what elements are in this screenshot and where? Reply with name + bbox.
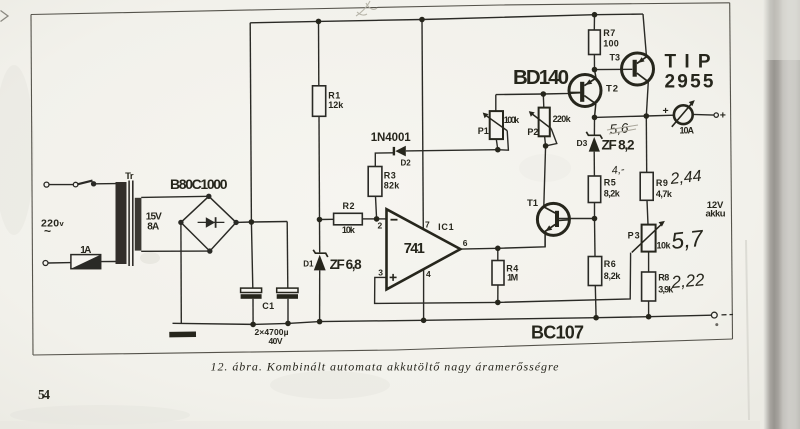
svg-text:7: 7 <box>425 220 430 230</box>
minus dashes <box>722 314 734 316</box>
svg-text:8,2k: 8,2k <box>604 271 622 281</box>
wire D3 top stem <box>593 117 595 134</box>
svg-text:5,6: 5,6 <box>609 120 629 137</box>
label R2 10k <box>342 201 356 235</box>
wire P1 wiper bend <box>498 131 509 151</box>
label R9 4,7k <box>656 178 673 199</box>
svg-text:8A: 8A <box>147 222 159 233</box>
node R7 rail <box>592 12 598 18</box>
wire output rail <box>595 115 674 117</box>
page edge shadow band right <box>763 0 800 429</box>
label R6 8,2k <box>604 259 622 281</box>
svg-text:12k: 12k <box>328 100 344 110</box>
svg-text:+: + <box>663 105 669 117</box>
svg-text:T2: T2 <box>606 84 618 95</box>
node R6 ground <box>593 315 599 321</box>
svg-text:1A: 1A <box>80 245 91 256</box>
resistor R6 <box>588 257 601 286</box>
wire switch to transformer <box>96 183 116 185</box>
potentiometer P2 <box>529 108 551 137</box>
node bridge bottom <box>207 248 212 253</box>
wire input live top <box>49 184 73 186</box>
wire R4 bottom stem <box>497 285 499 302</box>
terminal input top <box>44 182 49 187</box>
transistor T3 TIP2955 <box>622 53 654 85</box>
node bridge right <box>233 220 238 225</box>
wire riser to cap1 <box>251 222 252 288</box>
capacitor C1 b <box>277 288 298 323</box>
svg-text:6: 6 <box>463 238 468 248</box>
wire pin7 riser <box>422 20 423 230</box>
opamp plus sign <box>390 274 397 281</box>
node R1 R2 D1 <box>317 217 323 223</box>
svg-text:D3: D3 <box>577 138 588 148</box>
wire R3 riser to D2 <box>375 153 393 167</box>
bridge rectifier B80C1000 diamond <box>181 196 236 251</box>
svg-text:2,22: 2,22 <box>670 270 706 292</box>
wire T3 collector riser <box>646 82 648 116</box>
resistor R2 <box>334 213 363 225</box>
resistor R3 <box>368 167 382 197</box>
wire bridge minus down <box>180 222 182 323</box>
wire R7 top stem <box>593 15 595 30</box>
label R8 3,9k <box>658 273 674 295</box>
label TIP 2955 <box>665 52 714 93</box>
svg-text:82k: 82k <box>384 180 400 190</box>
potentiometer P1 <box>483 111 508 139</box>
wire bridge plus to cap2 corner <box>236 221 287 224</box>
wire D1 bottom stem <box>319 270 321 321</box>
svg-text:ZF 8,2: ZF 8,2 <box>602 137 635 152</box>
label 15V 8A <box>146 212 162 233</box>
node T2 collector rail <box>592 115 598 121</box>
svg-text:R2: R2 <box>343 201 355 211</box>
svg-text:3: 3 <box>378 267 383 277</box>
node P2 bottom T1 collector <box>543 143 549 149</box>
svg-text:C1: C1 <box>262 301 274 311</box>
svg-text:54: 54 <box>38 387 50 402</box>
svg-text:220k: 220k <box>553 114 572 124</box>
node T3 collector rail <box>644 113 650 119</box>
wire R4 top stem <box>497 248 499 260</box>
ink speck <box>715 323 718 326</box>
wire pin4 riser <box>423 270 425 321</box>
opamp minus sign <box>391 219 398 221</box>
wire R3 bottom to pin2 <box>376 196 377 219</box>
svg-text:D2: D2 <box>401 159 412 168</box>
wire riser cap2 <box>286 222 289 288</box>
diode D2 1N4001 <box>394 146 406 157</box>
potentiometer P3 <box>632 221 665 253</box>
wire left riser bridge plus to top rail <box>250 23 251 222</box>
wire P2 bottom stem <box>545 136 546 146</box>
wire P1 top stem <box>495 95 497 112</box>
svg-text:2955: 2955 <box>665 72 714 93</box>
ammeter M1 10A <box>672 100 695 127</box>
wire top rail <box>250 14 643 23</box>
wire R2 to pin2 node <box>362 218 376 220</box>
transistor T1 BC107 <box>537 203 569 235</box>
resistor R5 <box>588 176 600 203</box>
ground symbol <box>169 323 196 334</box>
node bridge left <box>178 220 183 225</box>
label R7 100 <box>603 28 619 49</box>
wire secondary top to bridge <box>141 196 209 197</box>
svg-text:1M: 1M <box>507 273 518 283</box>
wire R5 bottom to T1 node <box>594 203 596 219</box>
resistor R4 <box>492 261 504 286</box>
svg-text:+: + <box>720 110 726 122</box>
wire secondary bottom to bridge <box>141 250 210 252</box>
label 220v <box>41 217 65 238</box>
node bridge top <box>206 194 211 199</box>
label R5 8,2k <box>604 178 621 199</box>
zener diode D3 <box>586 132 602 152</box>
svg-text:D1: D1 <box>303 259 314 268</box>
wire pin2 stub <box>377 218 387 220</box>
svg-text:R7: R7 <box>603 28 615 38</box>
wire R9 bottom to P3 <box>647 200 648 224</box>
node R7 T3 base <box>592 67 598 73</box>
transformer secondary winding <box>135 198 142 251</box>
wire top rail corner down to T3 emitter <box>643 14 647 57</box>
svg-text:~: ~ <box>44 224 51 238</box>
label R1 12k <box>328 91 344 110</box>
resistor R8 <box>642 272 656 301</box>
T2 emitter arrow <box>585 79 592 85</box>
node R8 ground <box>646 314 652 320</box>
wire R7 bottom to T3 base node <box>593 55 595 70</box>
svg-text:T3: T3 <box>610 52 621 62</box>
svg-text:4: 4 <box>426 269 431 279</box>
svg-text:R6: R6 <box>604 259 616 269</box>
svg-text:10k: 10k <box>342 225 356 235</box>
node P2 top <box>541 91 547 97</box>
figure frame border <box>31 3 733 355</box>
zener diode D1 <box>313 250 328 271</box>
svg-text:4,-: 4,- <box>611 164 625 177</box>
svg-text:T1: T1 <box>527 198 539 209</box>
wire fuse to transformer <box>101 261 116 263</box>
svg-text:IC1: IC1 <box>438 222 454 232</box>
op-amp U1 741 triangle <box>387 209 461 289</box>
resistor R7 <box>589 30 601 55</box>
transformer core <box>129 181 133 267</box>
handwritten pencil 5,6 <box>609 120 629 137</box>
node pin6 R4 <box>495 246 501 252</box>
svg-text:12. ábra. Kombinált automata a: 12. ábra. Kombinált automata akkutöltő n… <box>211 360 560 374</box>
node cap1 ground <box>250 322 256 328</box>
margin chevron mark <box>1 11 9 22</box>
faint crease line <box>746 240 749 420</box>
resistor R1 <box>313 86 326 117</box>
wire ground rail <box>173 315 712 324</box>
pencil scribble top <box>356 1 377 16</box>
wire input neutral to fuse <box>48 262 71 264</box>
node bridge plus riser <box>249 219 255 225</box>
svg-text:R5: R5 <box>604 178 616 188</box>
node P1 bottom <box>495 147 501 153</box>
svg-text:1N4001: 1N4001 <box>371 132 412 144</box>
wire T1 emitter stub <box>544 232 546 247</box>
node R1 top <box>316 19 322 25</box>
svg-text:5,7: 5,7 <box>670 225 706 254</box>
bridge inner diode <box>198 217 225 228</box>
wire R1 top stem <box>318 21 320 85</box>
svg-text:P2: P2 <box>527 127 538 137</box>
wire P2 top stem <box>542 94 545 108</box>
svg-text:R8: R8 <box>658 273 669 283</box>
switch lever <box>78 181 93 185</box>
svg-text:Tr: Tr <box>125 171 134 182</box>
wire R8 bottom stem <box>648 301 650 317</box>
transformer Tr primary winding <box>116 182 127 264</box>
svg-text:B80C1000: B80C1000 <box>170 176 228 192</box>
svg-text:741: 741 <box>404 241 425 257</box>
svg-text:ZF 6,8: ZF 6,8 <box>330 257 362 272</box>
wire T1 node to R6 <box>594 219 597 257</box>
label 12V akku <box>706 200 726 219</box>
wire pin3 stub and plus-input net <box>375 253 631 304</box>
wire pin6 output <box>460 234 545 249</box>
wire R1 bottom to node <box>318 116 321 219</box>
svg-text:R9: R9 <box>656 178 668 188</box>
node junction dots <box>249 12 652 327</box>
T3 emitter arrow <box>638 57 645 63</box>
pencil strike through 5,6 <box>607 125 638 134</box>
svg-text:TIP: TIP <box>665 52 711 73</box>
terminal input bottom <box>43 261 48 266</box>
svg-text:10A: 10A <box>680 126 695 136</box>
svg-text:akku: akku <box>706 209 726 220</box>
svg-text:10k: 10k <box>657 241 672 251</box>
svg-text:100: 100 <box>603 39 619 49</box>
node pin2 <box>374 216 380 222</box>
svg-text:2: 2 <box>378 220 383 230</box>
node cap2 ground <box>285 321 291 327</box>
wire node to R2 <box>320 218 334 220</box>
svg-text:BD140: BD140 <box>513 66 569 89</box>
T1 emitter arrow <box>545 225 552 231</box>
node pin4 ground <box>421 318 427 324</box>
wire D2 anode to P1 bottom node <box>406 150 498 151</box>
switch pivot circle <box>73 182 78 187</box>
wire P1 bottom stem <box>496 139 498 150</box>
fuse F 1A <box>71 255 101 269</box>
resistor R9 <box>640 172 653 200</box>
switch contact dot <box>91 181 96 186</box>
svg-text:2,44: 2,44 <box>669 168 703 188</box>
label R4 1M <box>506 264 518 283</box>
label 2x4700u 40V <box>255 327 289 346</box>
wire R6 bottom stem <box>594 286 597 318</box>
node D1 ground <box>317 319 323 325</box>
svg-text:4,7k: 4,7k <box>656 189 673 199</box>
wire T1 base to divider <box>555 218 594 220</box>
svg-text:40V: 40V <box>269 336 283 346</box>
wire D3 bottom to R5 <box>593 152 595 176</box>
wire P2 wiper bend <box>546 129 557 146</box>
svg-text:100k: 100k <box>504 115 520 125</box>
svg-text:R3: R3 <box>384 170 396 180</box>
transistor T2 BD140 <box>569 70 601 118</box>
capacitor C1 a <box>241 288 262 324</box>
wire P3 bottom to R8 <box>648 252 650 272</box>
wire D1 zener stems <box>319 220 321 253</box>
wire T1 collector riser <box>544 146 546 207</box>
svg-text:BC107: BC107 <box>531 322 584 342</box>
node pin7 rail <box>419 17 425 23</box>
wire T3 base <box>595 68 633 70</box>
svg-text:P1: P1 <box>478 126 489 136</box>
terminal plus output <box>714 113 718 117</box>
wire ammeter to plus terminal <box>693 113 714 116</box>
svg-text:P3: P3 <box>628 231 640 241</box>
node R5 R6 T1 <box>592 216 598 222</box>
wire R9 top stem <box>645 116 647 172</box>
label R3 82k <box>384 170 400 190</box>
wire T2 base net <box>496 93 581 95</box>
svg-text:8,2k: 8,2k <box>604 189 621 199</box>
terminal minus output <box>711 312 717 318</box>
node R4 bottom <box>495 300 501 306</box>
